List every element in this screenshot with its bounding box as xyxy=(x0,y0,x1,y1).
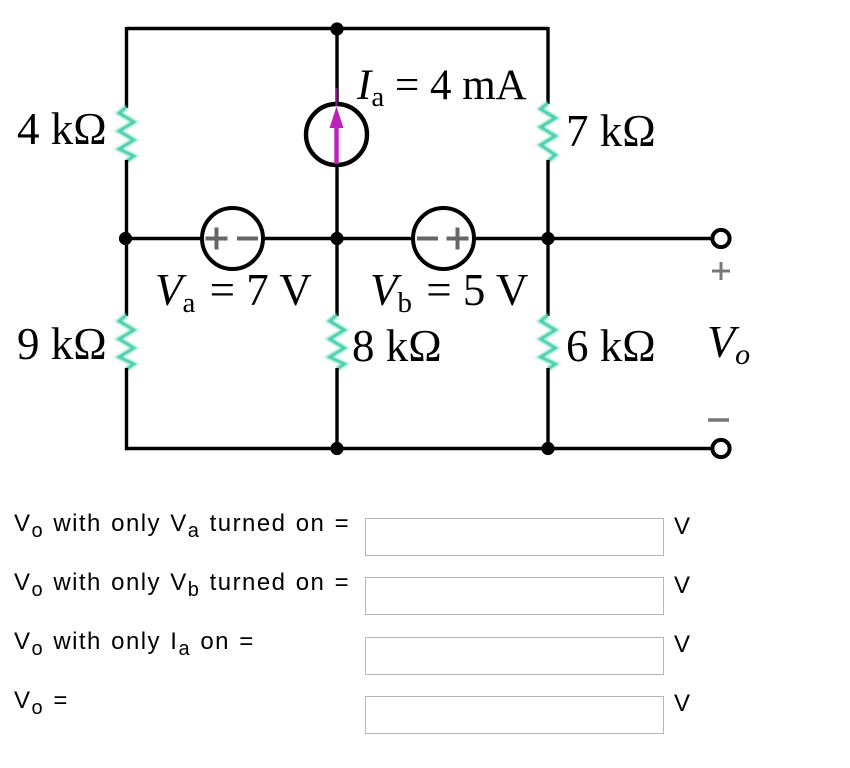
svg-text:8 kΩ: 8 kΩ xyxy=(352,321,442,371)
svg-text:4 kΩ: 4 kΩ xyxy=(17,104,107,154)
wire middle branch below source xyxy=(335,165,338,240)
form row 1 text xyxy=(14,510,350,543)
wire right branch upper xyxy=(546,27,549,104)
resistor 4 kOhm xyxy=(119,107,134,161)
svg-text:6 kΩ: 6 kΩ xyxy=(566,321,656,371)
form row 4 text xyxy=(14,687,69,720)
form row 1 input box xyxy=(365,518,664,556)
current source arrow xyxy=(330,107,344,165)
svg-text:Vb = 5 V: Vb = 5 V xyxy=(370,265,528,319)
resistor 7 kOhm xyxy=(541,103,556,161)
wire top rail xyxy=(127,27,549,30)
resistor 6 kOhm xyxy=(541,315,556,369)
node bottom right xyxy=(541,442,554,455)
wire middle branch mid xyxy=(335,238,338,316)
node right middle xyxy=(541,232,554,245)
node top middle xyxy=(330,22,343,35)
Va minus sign xyxy=(237,237,258,241)
form row 3 text xyxy=(14,628,255,661)
wire middle branch upper xyxy=(335,29,338,105)
wire bottom output lead xyxy=(548,447,712,450)
svg-text:Vo: Vo xyxy=(707,316,750,371)
wire bottom rail xyxy=(127,447,549,450)
current source arrow shaft tint above xyxy=(335,88,337,106)
form row 1 unit V xyxy=(674,513,690,541)
terminal bottom output xyxy=(712,440,729,457)
svg-text:7 kΩ: 7 kΩ xyxy=(566,106,656,156)
svg-text:9 kΩ: 9 kΩ xyxy=(17,319,107,369)
voltage source Vb circle xyxy=(413,208,474,269)
Va plus sign xyxy=(206,228,228,250)
wire right branch bottom xyxy=(546,368,549,450)
form row 4 input box xyxy=(365,696,664,734)
wire left branch middle xyxy=(125,160,128,240)
output plus mark xyxy=(712,262,730,280)
wire middle rail segment 2 xyxy=(263,237,413,240)
wire middle rail segment 3 xyxy=(474,237,548,240)
wire right branch mid2 xyxy=(546,238,549,316)
current source Ia circle xyxy=(306,104,367,165)
node left middle xyxy=(119,232,132,245)
wire left branch bottom xyxy=(125,368,128,450)
wire left branch lower xyxy=(125,238,128,316)
svg-text:Va = 7 V: Va = 7 V xyxy=(155,265,312,319)
wire top output lead xyxy=(548,237,712,240)
wire right branch middle xyxy=(546,160,549,240)
svg-text:Ia = 4 mA: Ia = 4 mA xyxy=(356,62,527,113)
Vb minus sign xyxy=(417,237,438,241)
form row 2 unit V xyxy=(674,572,690,600)
form row 3 input box xyxy=(365,637,664,675)
resistor 8 kOhm xyxy=(330,315,345,369)
form row 2 input box xyxy=(365,577,664,615)
Vb plus sign xyxy=(447,228,469,250)
node bottom middle xyxy=(330,442,343,455)
wire middle branch bottom xyxy=(335,368,338,450)
terminal top output xyxy=(712,230,729,247)
output minus mark xyxy=(708,418,729,421)
form row 3 unit V xyxy=(674,631,690,659)
form row 4 unit V xyxy=(674,690,690,718)
wire left branch upper xyxy=(125,27,128,108)
voltage source Va circle xyxy=(202,208,263,269)
form row 2 text xyxy=(14,569,350,602)
wire middle rail segment 1 xyxy=(127,237,203,240)
resistor 9 kOhm xyxy=(119,315,134,369)
node center middle xyxy=(330,232,343,245)
